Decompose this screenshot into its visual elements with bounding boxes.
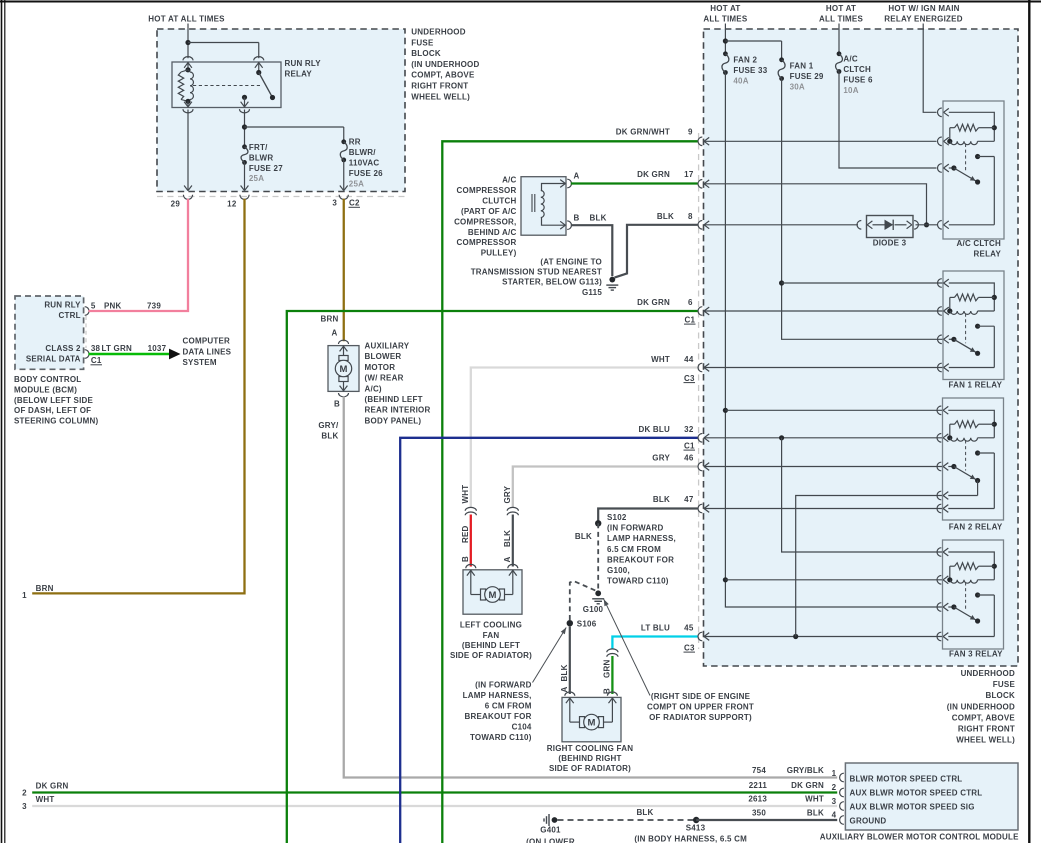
svg-text:RUN RLY: RUN RLY xyxy=(44,301,81,310)
svg-text:HOT W/ IGN MAIN: HOT W/ IGN MAIN xyxy=(888,4,959,13)
wire ign main feed to a/c relay xyxy=(923,24,936,113)
svg-text:6.5 CM FROM: 6.5 CM FROM xyxy=(607,545,661,554)
svg-text:UNDERHOOD: UNDERHOOD xyxy=(411,28,465,37)
junction node feed split xyxy=(185,40,190,45)
svg-text:5: 5 xyxy=(91,301,96,310)
svg-text:MOTOR: MOTOR xyxy=(365,363,396,372)
wire BLK dashed S106 to G100 xyxy=(570,581,596,620)
wire BLK 350 S413 to module ground xyxy=(696,819,837,821)
label 754 GRY/BLK 1 xyxy=(752,766,837,778)
label G401 location xyxy=(526,838,575,843)
svg-text:25A: 25A xyxy=(349,179,364,188)
wire row 9 to a/c relay coil xyxy=(704,140,937,142)
power label HOT AT ALL TIMES (fuse 33) xyxy=(703,4,747,24)
wire row 46 to fan2 switch xyxy=(704,466,943,468)
svg-text:A: A xyxy=(503,557,512,563)
labels WHT RED B (rotated) xyxy=(461,485,470,562)
svg-text:MODULE (BCM): MODULE (BCM) xyxy=(14,385,77,394)
svg-text:C3: C3 xyxy=(684,374,695,383)
svg-text:(BELOW LEFT SIDE: (BELOW LEFT SIDE xyxy=(14,396,94,405)
svg-text:1037: 1037 xyxy=(148,344,167,353)
wire fuse 27 to pin 12 xyxy=(241,162,249,190)
svg-text:HOT AT: HOT AT xyxy=(710,4,740,13)
inline connector WHT to RED xyxy=(465,507,476,515)
relay K3 FAN 2 RELAY xyxy=(937,398,1004,532)
wire BLK dashed S102 to G100 xyxy=(575,523,598,590)
diode D3 DIODE 3 xyxy=(857,216,918,248)
label BRN / pin A xyxy=(321,315,339,338)
svg-text:AUX BLWR MOTOR SPEED SIG: AUX BLWR MOTOR SPEED SIG xyxy=(850,802,975,811)
svg-text:SYSTEM: SYSTEM xyxy=(183,358,217,367)
svg-text:DK GRN: DK GRN xyxy=(36,781,69,790)
label pin B / GRY/BLK xyxy=(318,400,340,441)
left cooling fan motor M2 xyxy=(463,564,522,614)
svg-text:(BEHIND LEFT: (BEHIND LEFT xyxy=(365,395,423,404)
wire row 6 to fan1 coil xyxy=(704,310,943,312)
junction dk blu to fan3 feed xyxy=(779,435,942,552)
svg-text:HOT AT ALL TIMES: HOT AT ALL TIMES xyxy=(148,15,225,24)
svg-text:S106: S106 xyxy=(577,620,597,629)
svg-text:17: 17 xyxy=(684,170,694,179)
wire BRN page connector 1 xyxy=(22,199,244,600)
svg-text:BLWR: BLWR xyxy=(249,154,273,163)
svg-text:B: B xyxy=(603,688,612,694)
svg-text:GRY/BLK: GRY/BLK xyxy=(787,766,824,775)
svg-text:WHT: WHT xyxy=(805,795,824,804)
module pin connector at y=820 xyxy=(840,816,844,825)
svg-text:M: M xyxy=(340,364,348,375)
wire BLK clutch pin B to ground G115 xyxy=(571,225,613,276)
svg-text:29: 29 xyxy=(171,200,181,209)
svg-text:LAMP HARNESS,: LAMP HARNESS, xyxy=(607,534,676,543)
svg-text:BLK: BLK xyxy=(560,664,569,681)
svg-text:BREAKOUT FOR: BREAKOUT FOR xyxy=(607,555,674,564)
svg-text:BLK: BLK xyxy=(575,532,592,541)
svg-text:DK GRN/WHT: DK GRN/WHT xyxy=(616,128,670,137)
wire row 45 to fan3 out xyxy=(704,636,943,638)
svg-text:COMPRESSOR,: COMPRESSOR, xyxy=(454,217,516,226)
wire GRY 46 xyxy=(513,467,698,509)
svg-text:AUXILIARY: AUXILIARY xyxy=(365,342,410,351)
relay coil output wire to pin 29 xyxy=(183,102,193,191)
wire BLK dashed G401 to S413 xyxy=(558,808,695,820)
label AUXILIARY BLOWER MOTOR location xyxy=(365,342,431,426)
svg-text:COMPUTER: COMPUTER xyxy=(183,337,231,346)
svg-text:(IN FORWARD: (IN FORWARD xyxy=(607,524,664,533)
svg-text:HOT AT: HOT AT xyxy=(826,4,856,13)
svg-text:A: A xyxy=(332,329,338,338)
svg-text:TOWARD C110): TOWARD C110) xyxy=(607,577,669,586)
wire PNK 739 pin29 to BCM pin 5 xyxy=(89,199,189,311)
svg-text:1: 1 xyxy=(832,769,837,778)
wire WHT page connector 3 xyxy=(22,795,837,811)
wire WHT 44 xyxy=(471,368,698,509)
inline connector LT BLU to GRN xyxy=(607,649,618,657)
ground G100 xyxy=(583,590,604,614)
svg-text:32: 32 xyxy=(684,425,694,434)
svg-text:GRY: GRY xyxy=(503,485,512,503)
svg-text:RELAY: RELAY xyxy=(285,70,313,79)
wire DK GRN page connector 2 xyxy=(22,781,837,797)
wire fuse 33 rail xyxy=(725,73,942,608)
svg-text:SIDE OF RADIATOR): SIDE OF RADIATOR) xyxy=(549,764,631,773)
module pin connector at y=777.5 xyxy=(840,773,844,782)
svg-text:350: 350 xyxy=(752,808,766,817)
svg-text:COMPRESSOR: COMPRESSOR xyxy=(457,238,517,247)
relay K4 FAN 3 RELAY xyxy=(937,540,1004,659)
junction node fuse feeds xyxy=(723,38,782,59)
svg-text:46: 46 xyxy=(684,453,694,462)
svg-text:CLUTCH: CLUTCH xyxy=(482,196,516,205)
wire DK GRN 17 clutch pin A to fuse block xyxy=(571,182,698,184)
svg-text:2613: 2613 xyxy=(748,795,767,804)
label pin A xyxy=(574,172,580,181)
wire BLK S106 to right fan pin A xyxy=(569,627,571,695)
label UNDERHOOD FUSE BLOCK (right) xyxy=(947,669,1016,745)
svg-text:BLK: BLK xyxy=(636,808,653,817)
svg-text:B: B xyxy=(574,214,580,223)
svg-text:BLK: BLK xyxy=(503,530,512,547)
svg-text:BLWR/: BLWR/ xyxy=(349,148,376,157)
svg-text:G100,: G100, xyxy=(607,566,630,575)
relay K1 A/C CLTCH RELAY xyxy=(937,101,1004,259)
power label HOT AT ALL TIMES (fuse 29) xyxy=(819,4,863,24)
svg-text:FAN 2: FAN 2 xyxy=(733,55,757,64)
fuse block pin 9 connector xyxy=(698,137,709,146)
svg-text:FAN: FAN xyxy=(483,631,500,640)
label S106 description xyxy=(463,680,532,742)
svg-text:FAN 3 RELAY: FAN 3 RELAY xyxy=(949,650,1003,659)
svg-text:FUSE 26: FUSE 26 xyxy=(349,169,383,178)
svg-text:WHT: WHT xyxy=(651,355,670,364)
svg-text:BLK: BLK xyxy=(321,432,338,441)
splice S106 xyxy=(567,620,597,629)
svg-text:RIGHT FRONT: RIGHT FRONT xyxy=(958,725,1015,734)
svg-text:739: 739 xyxy=(147,301,161,310)
module pin connector at y=806 xyxy=(840,802,844,811)
wire branch to fuse 26 xyxy=(245,127,344,142)
svg-text:WHEEL WELL): WHEEL WELL) xyxy=(956,736,1015,745)
wire BLK 47 xyxy=(598,509,697,522)
label LEFT COOLING FAN location xyxy=(450,621,532,660)
right cooling fan motor M3 xyxy=(562,692,621,742)
svg-text:DK GRN: DK GRN xyxy=(791,781,824,790)
svg-text:COMPT, ABOVE: COMPT, ABOVE xyxy=(411,71,475,80)
label WHT 44 C3 xyxy=(651,355,695,383)
svg-text:M: M xyxy=(588,718,596,729)
svg-text:CLTCH: CLTCH xyxy=(843,65,871,74)
wire DK GRN 6 xyxy=(287,311,698,843)
fuse F26 RR BLWR/110VAC FUSE 26 25A xyxy=(340,137,383,188)
wire GRN to right fan pin B xyxy=(611,656,613,694)
svg-text:(IN FORWARD: (IN FORWARD xyxy=(475,680,532,689)
svg-text:FRT/: FRT/ xyxy=(249,143,268,152)
wire feed from HOT AT ALL TIMES into left block xyxy=(187,24,189,59)
svg-text:47: 47 xyxy=(684,495,694,504)
label BLK 47 xyxy=(653,495,694,504)
svg-text:3: 3 xyxy=(832,797,837,806)
splice S413 xyxy=(686,817,706,833)
svg-text:RELAY: RELAY xyxy=(974,250,1002,259)
wire DK GRN/WHT 9 xyxy=(442,141,697,843)
wire DK BLU 32 xyxy=(400,438,697,843)
svg-text:COMPRESSOR: COMPRESSOR xyxy=(457,186,517,195)
svg-text:WHEEL WELL): WHEEL WELL) xyxy=(411,92,470,101)
svg-text:B: B xyxy=(334,400,340,409)
wire fuse 6 to a/c relay switch xyxy=(839,72,937,169)
BCM pin RUN RLY CTRL xyxy=(44,301,89,321)
svg-text:AUX BLWR MOTOR SPEED CTRL: AUX BLWR MOTOR SPEED CTRL xyxy=(850,789,983,798)
module pin connector at y=792.5 xyxy=(840,788,844,797)
svg-text:C104: C104 xyxy=(512,722,532,731)
body control module (BCM) box xyxy=(15,296,86,369)
splice S102 xyxy=(595,520,601,526)
svg-text:9: 9 xyxy=(688,128,693,137)
svg-text:BREAKOUT FOR: BREAKOUT FOR xyxy=(465,712,532,721)
svg-text:SIDE OF RADIATOR): SIDE OF RADIATOR) xyxy=(450,651,532,660)
fuse block pin 17 connector xyxy=(698,180,709,189)
relay switch (common, arm, output) xyxy=(242,62,275,108)
svg-text:CTRL: CTRL xyxy=(58,311,80,320)
ground G401 xyxy=(540,814,561,835)
svg-text:FAN 2 RELAY: FAN 2 RELAY xyxy=(949,523,1003,532)
svg-text:(AT ENGINE TO: (AT ENGINE TO xyxy=(540,257,602,266)
fuse F6 A/C CLTCH FUSE 6 10A xyxy=(836,51,874,95)
label AUXILIARY BLOWER MOTOR CONTROL MODULE xyxy=(820,832,1019,841)
fuse block pin 44 connector xyxy=(698,363,709,372)
svg-text:TRANSMISSION STUD NEAREST: TRANSMISSION STUD NEAREST xyxy=(471,268,602,277)
pin 3 connector C2 xyxy=(332,195,360,208)
svg-text:RIGHT FRONT: RIGHT FRONT xyxy=(411,82,468,91)
svg-text:A: A xyxy=(574,172,580,181)
power label HOT W/ IGN MAIN RELAY ENERGIZED xyxy=(884,4,962,24)
inline connector GRY to BLK xyxy=(507,507,518,515)
svg-text:WHT: WHT xyxy=(36,795,55,804)
labels GRN B (rotated) xyxy=(603,660,612,694)
svg-text:A: A xyxy=(560,687,569,693)
svg-text:M: M xyxy=(489,590,497,601)
svg-text:DK GRN: DK GRN xyxy=(637,298,670,307)
svg-text:GROUND: GROUND xyxy=(850,817,887,826)
svg-text:(BEHIND RIGHT: (BEHIND RIGHT xyxy=(558,754,621,763)
connector face C2 (left block bottom, gray dashed) xyxy=(157,196,405,198)
wire LT GRN 1037 class 2 serial data xyxy=(89,353,170,356)
svg-text:25A: 25A xyxy=(249,174,264,183)
svg-text:FUSE 33: FUSE 33 xyxy=(733,66,767,75)
a/c compressor clutch coil box xyxy=(521,177,572,236)
svg-text:G401: G401 xyxy=(540,826,561,835)
svg-text:(IN BODY HARNESS, 6.5 CM: (IN BODY HARNESS, 6.5 CM xyxy=(634,835,747,843)
svg-text:BODY CONTROL: BODY CONTROL xyxy=(14,375,81,384)
svg-text:(BEHIND LEFT: (BEHIND LEFT xyxy=(462,641,520,650)
svg-text:C1: C1 xyxy=(684,441,695,450)
svg-text:AUXILIARY BLOWER MOTOR CONTROL: AUXILIARY BLOWER MOTOR CONTROL MODULE xyxy=(820,832,1019,841)
svg-text:(RIGHT SIDE OF ENGINE: (RIGHT SIDE OF ENGINE xyxy=(651,692,751,701)
fuse F6 feed wire xyxy=(838,24,840,54)
svg-text:3: 3 xyxy=(22,802,27,811)
svg-text:FAN 1: FAN 1 xyxy=(790,61,814,70)
svg-text:OF RADIATOR SUPPORT): OF RADIATOR SUPPORT) xyxy=(649,713,752,722)
svg-text:LT BLU: LT BLU xyxy=(641,623,670,632)
svg-text:FUSE 27: FUSE 27 xyxy=(249,164,283,173)
wire BLK to left fan pin A xyxy=(512,515,514,567)
svg-text:TOWARD C110): TOWARD C110) xyxy=(470,733,532,742)
wire RED to left fan pin B xyxy=(470,515,472,567)
svg-text:C3: C3 xyxy=(684,643,695,652)
svg-text:STEERING COLUMN): STEERING COLUMN) xyxy=(14,417,99,426)
svg-text:BRN: BRN xyxy=(36,584,54,593)
label COMPUTER DATA LINES SYSTEM xyxy=(183,337,232,368)
relay switch output wire xyxy=(240,102,250,147)
svg-text:SERIAL DATA: SERIAL DATA xyxy=(26,355,81,364)
svg-text:LAMP HARNESS,: LAMP HARNESS, xyxy=(463,691,532,700)
fuse block pin 6 connector xyxy=(698,307,709,316)
label pin B / BLK xyxy=(574,214,607,223)
svg-text:2211: 2211 xyxy=(749,781,768,790)
svg-text:RR: RR xyxy=(349,137,361,146)
svg-text:44: 44 xyxy=(684,355,694,364)
svg-text:COMPT, ABOVE: COMPT, ABOVE xyxy=(952,713,1016,722)
label BODY CONTROL MODULE (BCM) location xyxy=(14,375,99,426)
label G115 location xyxy=(471,257,603,297)
fuse block pin 46 connector xyxy=(698,462,709,471)
wire row 8 to diode xyxy=(704,224,859,226)
module pin names xyxy=(850,774,983,825)
svg-text:1: 1 xyxy=(22,591,27,600)
label G100 location xyxy=(647,692,754,722)
label 2613 WHT 3 xyxy=(748,795,836,806)
run rly relay box xyxy=(172,62,281,108)
svg-text:BRN: BRN xyxy=(321,315,339,324)
svg-text:DIODE 3: DIODE 3 xyxy=(873,239,907,248)
auxiliary blower motor M1 xyxy=(328,340,359,397)
svg-text:DK GRN: DK GRN xyxy=(637,170,670,179)
svg-text:GRN: GRN xyxy=(603,660,612,678)
fuse F27 FRT/BLWR FUSE 27 25A xyxy=(241,143,283,183)
relay coil (resistor and inductor in parallel) xyxy=(178,62,193,108)
junction fan2 relay feed xyxy=(723,408,942,413)
wire dk grn 17 row to diode junction xyxy=(704,184,927,225)
svg-text:12: 12 xyxy=(227,200,237,209)
wire fuse 26 to pin 3 xyxy=(340,160,348,191)
svg-text:BLK: BLK xyxy=(807,808,824,817)
fuse block pin 32 connector xyxy=(698,433,709,442)
svg-text:2: 2 xyxy=(832,783,837,792)
svg-text:A/C: A/C xyxy=(843,55,857,64)
label S413 description xyxy=(634,835,747,843)
svg-text:40A: 40A xyxy=(733,76,748,85)
fuse F33 feed wire xyxy=(724,24,726,54)
svg-text:8: 8 xyxy=(688,212,693,221)
svg-text:BLOCK: BLOCK xyxy=(985,691,1015,700)
label A/C COMPRESSOR CLUTCH location xyxy=(454,176,517,258)
svg-text:BLOWER: BLOWER xyxy=(365,352,402,361)
svg-text:FUSE: FUSE xyxy=(993,680,1016,689)
svg-text:RELAY ENERGIZED: RELAY ENERGIZED xyxy=(884,15,962,24)
svg-text:G115: G115 xyxy=(582,288,602,297)
svg-text:C2: C2 xyxy=(349,199,360,208)
svg-text:BEHIND A/C: BEHIND A/C xyxy=(468,228,517,237)
svg-text:PNK: PNK xyxy=(104,301,122,310)
fuse block pin 45 connector xyxy=(698,632,709,641)
leader arrow to G100 xyxy=(604,599,650,695)
label pin 38 LT GRN 1037 C1 xyxy=(91,344,167,365)
svg-text:GRY: GRY xyxy=(652,453,670,462)
svg-text:BLWR MOTOR SPEED CTRL: BLWR MOTOR SPEED CTRL xyxy=(850,774,963,783)
svg-text:3: 3 xyxy=(332,199,337,208)
svg-text:RED: RED xyxy=(461,525,470,543)
svg-text:WHT: WHT xyxy=(461,485,470,504)
BCM pin CLASS 2 SERIAL DATA xyxy=(26,344,89,364)
ground G115 xyxy=(606,277,618,290)
junction node fuse feed split xyxy=(242,124,247,129)
junction fan3 coil feed xyxy=(723,577,942,582)
svg-text:BODY PANEL): BODY PANEL) xyxy=(365,416,422,425)
svg-text:G100: G100 xyxy=(583,605,604,614)
pin 29 connector xyxy=(171,195,193,209)
svg-text:ALL TIMES: ALL TIMES xyxy=(819,15,863,24)
svg-text:GRY/: GRY/ xyxy=(318,421,339,430)
wire BLK fuse block pin 8 to ground G115 xyxy=(615,225,698,278)
svg-text:38: 38 xyxy=(91,344,101,353)
label DK GRN/WHT 9 xyxy=(616,128,693,137)
arrow to computer data lines system xyxy=(169,349,181,360)
svg-text:DATA LINES: DATA LINES xyxy=(183,347,232,356)
leader arrow to S106 xyxy=(533,628,567,683)
wire branch to relay switch feed xyxy=(188,43,259,59)
svg-text:BLK: BLK xyxy=(590,214,607,223)
svg-text:30A: 30A xyxy=(790,82,805,91)
power label HOT AT ALL TIMES (left block) xyxy=(148,15,225,24)
wire row 32 to fan2 coil xyxy=(704,437,943,439)
svg-text:C1: C1 xyxy=(91,356,102,365)
label RIGHT COOLING FAN location xyxy=(547,744,633,773)
label GRY 46 xyxy=(652,453,694,462)
svg-text:6: 6 xyxy=(688,298,693,307)
label pin 5 PNK 739 xyxy=(91,301,161,310)
svg-text:45: 45 xyxy=(684,623,694,632)
svg-text:C1: C1 xyxy=(685,315,696,324)
svg-text:2: 2 xyxy=(22,789,27,798)
pin 12 connector xyxy=(227,195,249,209)
svg-text:BLOCK: BLOCK xyxy=(411,49,441,58)
svg-text:(IN UNDERHOOD: (IN UNDERHOOD xyxy=(411,60,479,69)
svg-text:A/C: A/C xyxy=(502,176,516,185)
svg-text:6 CM FROM: 6 CM FROM xyxy=(485,701,532,710)
svg-text:(PART OF A/C: (PART OF A/C xyxy=(461,207,517,216)
svg-text:RIGHT COOLING FAN: RIGHT COOLING FAN xyxy=(547,744,633,753)
svg-text:754: 754 xyxy=(752,766,766,775)
svg-text:(W/ REAR: (W/ REAR xyxy=(365,374,404,383)
label DK GRN 6 C1 xyxy=(637,298,695,324)
svg-text:BLK: BLK xyxy=(657,212,674,221)
svg-text:FUSE 6: FUSE 6 xyxy=(843,76,873,85)
wire GRY/BLK 754 aux blower to module pin 1 xyxy=(344,397,837,778)
junction fan1 relay feed xyxy=(779,280,943,285)
wire BRN fuse 26 to aux blower pin A xyxy=(343,199,345,341)
label RUN RLY RELAY xyxy=(285,59,322,79)
wire row 47 to fan2 out xyxy=(704,508,943,510)
svg-text:STARTER, BELOW G113): STARTER, BELOW G113) xyxy=(502,278,602,287)
labels GRY BLK A (rotated) xyxy=(503,485,512,562)
svg-text:S413: S413 xyxy=(686,824,706,833)
label DK GRN 17 xyxy=(637,170,694,179)
label LT BLU 45 C3 xyxy=(641,623,695,652)
svg-text:(IN UNDERHOOD: (IN UNDERHOOD xyxy=(947,702,1015,711)
underhood fuse block (left) enclosure xyxy=(157,29,405,192)
svg-text:UNDERHOOD: UNDERHOOD xyxy=(961,669,1015,678)
svg-text:S102: S102 xyxy=(607,513,627,522)
